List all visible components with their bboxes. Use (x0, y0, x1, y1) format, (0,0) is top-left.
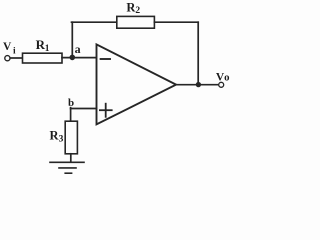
resistor R3 (65, 121, 77, 154)
wire feedback top right (154, 21, 198, 23)
wire feedback top left (72, 21, 118, 23)
wire node b to op-amp non-inverting input (71, 108, 97, 110)
svg-text:i: i (13, 46, 16, 56)
wire R3 to ground (70, 154, 72, 162)
label R2 (126, 0, 140, 16)
label Vi (3, 41, 16, 57)
wire op-amp output to Vo (176, 84, 219, 86)
wire Vi to R1 (10, 57, 23, 59)
resistor R2 (117, 16, 155, 28)
ground (50, 162, 84, 173)
label R3 (50, 129, 64, 145)
svg-text:2: 2 (135, 6, 140, 16)
label Vo (216, 72, 230, 84)
svg-text:b: b (68, 97, 74, 109)
wire R1 to op-amp inverting input (62, 57, 97, 59)
svg-text:3: 3 (59, 134, 64, 144)
output terminal Vo (219, 82, 224, 87)
wire feedback down to output node (197, 22, 199, 84)
op-amp inverting input minus sign (101, 58, 110, 60)
op-amp non-inverting input plus sign (100, 104, 112, 117)
wire node a up to feedback (71, 22, 73, 57)
label R1 (36, 37, 50, 54)
op-amp U1 triangle (97, 44, 177, 124)
svg-text:a: a (75, 42, 81, 56)
input terminal Vi (5, 56, 10, 61)
svg-text:V: V (3, 41, 12, 53)
wire node b down to R3 (70, 108, 72, 122)
svg-text:o: o (224, 72, 229, 84)
svg-text:1: 1 (45, 44, 50, 54)
node a junction dot (70, 55, 76, 61)
resistor R1 (23, 53, 63, 63)
output node junction dot (196, 82, 201, 87)
